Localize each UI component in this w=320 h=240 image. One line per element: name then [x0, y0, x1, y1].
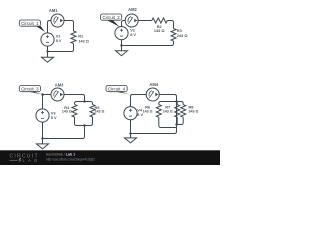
svg-text:143 Ω: 143 Ω [78, 38, 89, 43]
svg-text:243 Ω: 243 Ω [163, 109, 173, 113]
svg-text:AM2: AM2 [128, 7, 137, 12]
svg-text:8 V: 8 V [130, 32, 136, 37]
svg-text:243 Ω: 243 Ω [177, 33, 188, 38]
svg-text:Circuit_2: Circuit_2 [102, 15, 120, 20]
svg-text:Circuit_1: Circuit_1 [21, 21, 39, 26]
svg-text:143 Ω: 143 Ω [143, 109, 153, 113]
svg-text:Circuit_4: Circuit_4 [108, 87, 126, 92]
svg-text:5 V: 5 V [56, 38, 62, 43]
svg-text:AM1: AM1 [49, 8, 58, 13]
svg-text:143 Ω: 143 Ω [62, 110, 72, 114]
svg-text:AM4: AM4 [149, 82, 158, 87]
svg-text:Circuit_3: Circuit_3 [21, 87, 39, 92]
svg-text:LAB: LAB [23, 158, 39, 163]
svg-text:5 V: 5 V [51, 115, 57, 120]
svg-text:AM3: AM3 [55, 83, 64, 88]
svg-text:http://circuitlab.com/c6kqwr4c: http://circuitlab.com/c6kqwr4c5g82 [46, 157, 95, 161]
svg-text:343 Ω: 343 Ω [189, 109, 199, 113]
svg-text:Kevinshab / Lab 1: Kevinshab / Lab 1 [46, 153, 75, 157]
svg-text:243 Ω: 243 Ω [95, 110, 105, 114]
svg-text:143 Ω: 143 Ω [154, 28, 165, 33]
